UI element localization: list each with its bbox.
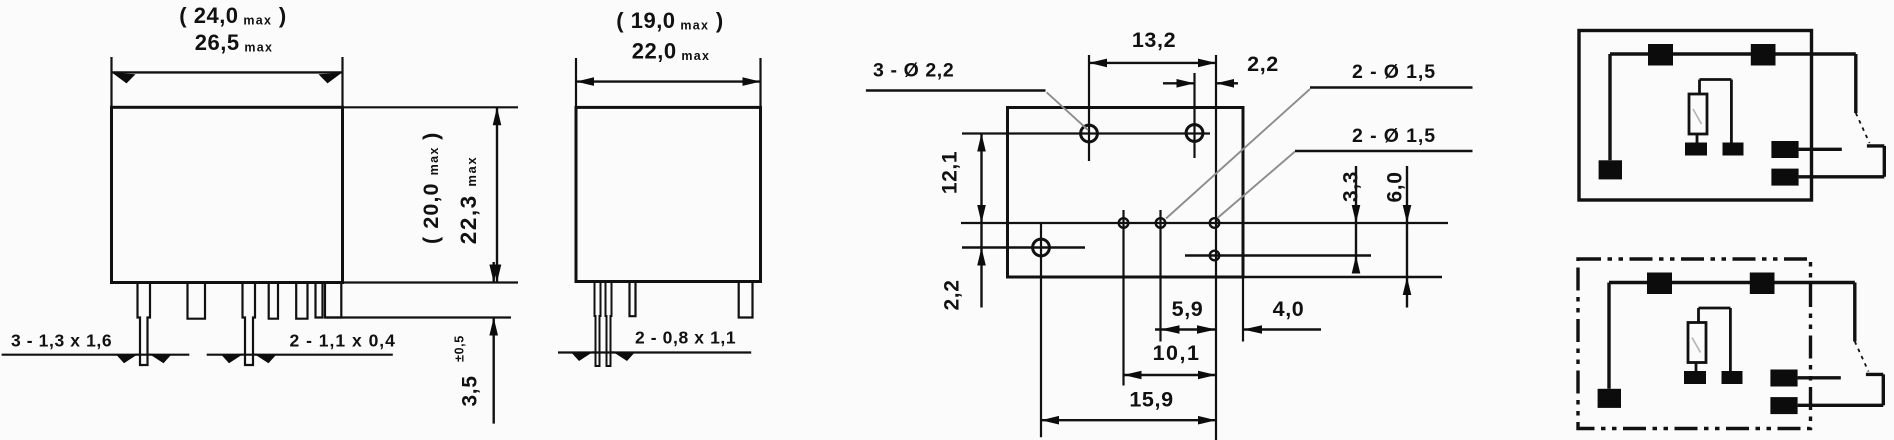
svg-text:5,9: 5,9 (1172, 297, 1204, 321)
svg-text:6,0: 6,0 (1384, 172, 1407, 203)
svg-text:2 - Ø 1,5: 2 - Ø 1,5 (1352, 125, 1436, 147)
svg-text:2 - 0,8 x 1,1: 2 - 0,8 x 1,1 (635, 328, 736, 348)
svg-text:12,1: 12,1 (939, 151, 962, 194)
svg-text:3,5: 3,5 (459, 376, 482, 407)
svg-text:10,1: 10,1 (1153, 341, 1201, 365)
svg-text:3 - Ø 2,2: 3 - Ø 2,2 (873, 60, 954, 82)
svg-text:13,2: 13,2 (1132, 28, 1176, 52)
svg-text:2 - Ø 1,5: 2 - Ø 1,5 (1352, 61, 1436, 83)
svg-text:±0,5: ±0,5 (453, 335, 467, 362)
svg-text:3,3: 3,3 (1340, 171, 1363, 202)
svg-text:3 - 1,3 x 1,6: 3 - 1,3 x 1,6 (11, 331, 112, 351)
svg-text:15,9: 15,9 (1129, 388, 1173, 412)
svg-text:2,2: 2,2 (941, 280, 964, 311)
svg-text:2,2: 2,2 (1247, 52, 1279, 76)
svg-text:4,0: 4,0 (1273, 297, 1305, 321)
svg-text:2 - 1,1 x 0,4: 2 - 1,1 x 0,4 (290, 331, 396, 351)
